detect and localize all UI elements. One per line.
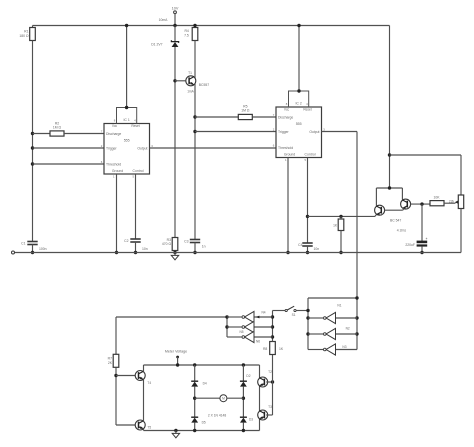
wire pot bottom to rail: [460, 209, 462, 253]
node IC2 vcc rail: [297, 24, 300, 27]
wire right group left bus: [306, 298, 309, 350]
svg-text:100n: 100n: [39, 247, 47, 251]
svg-text:Ground: Ground: [284, 152, 295, 156]
transistor T3: [258, 405, 272, 420]
inverter N6: [227, 331, 273, 343]
svg-text:Ground: Ground: [112, 169, 123, 173]
wire darlington collector bar: [376, 188, 402, 206]
svg-text:1K: 1K: [279, 347, 284, 351]
svg-text:470 Ω: 470 Ω: [162, 242, 172, 246]
svg-text:10V: 10V: [172, 7, 179, 11]
wire inverter left bus: [225, 315, 228, 337]
svg-text:22k: 22k: [449, 199, 455, 203]
wire base bus R8 to T3: [272, 355, 274, 416]
node 10V supply terminal: [172, 7, 179, 26]
svg-text:1M Ω: 1M Ω: [241, 108, 250, 112]
wire control to darlington base: [308, 214, 377, 216]
label diodes type: [208, 414, 226, 418]
potentiometer P1 22k: [458, 195, 463, 209]
wire meter voltage line: [116, 317, 227, 354]
wire left vertical (R1 to C1): [32, 41, 34, 242]
capacitor C5 220uF electrolytic: [405, 204, 427, 252]
transistor T4: [135, 371, 151, 385]
node IC1 vcc rail: [125, 24, 128, 27]
wire label 10mA: [159, 18, 169, 22]
capacitor C4: [298, 243, 319, 253]
svg-text:555: 555: [124, 138, 130, 142]
svg-text:IC 1: IC 1: [123, 118, 129, 122]
svg-text:Trigger: Trigger: [106, 146, 117, 150]
svg-text:10mA: 10mA: [159, 18, 169, 22]
wire T2 base: [266, 381, 272, 383]
svg-text:10n: 10n: [142, 247, 148, 251]
transistor T1 BC557: [175, 71, 209, 93]
diode D5: [191, 417, 206, 424]
diode D4: [191, 381, 207, 386]
node C5-rail: [420, 251, 423, 254]
svg-text:N4: N4: [262, 310, 266, 314]
svg-text:Trigger: Trigger: [278, 130, 289, 134]
transistor T2: [258, 370, 272, 387]
inverter N3: [308, 344, 357, 355]
svg-text:N3: N3: [342, 345, 346, 349]
svg-text:Threshold: Threshold: [106, 162, 121, 166]
wire right group top: [308, 296, 359, 299]
transistor Q1 BC547: [375, 205, 385, 215]
capacitor C2: [124, 239, 148, 253]
svg-text:R8: R8: [263, 347, 267, 351]
svg-text:10n: 10n: [314, 247, 320, 251]
ground under R3: [171, 253, 178, 260]
wire IC2 trigger: [195, 131, 276, 133]
svg-text:C4: C4: [298, 243, 302, 247]
wire left diode chain mid: [194, 387, 196, 418]
svg-text:1mA: 1mA: [187, 90, 194, 94]
resistor R3: [162, 238, 178, 253]
wire bridge box bottom: [144, 430, 260, 432]
wire IC1 threshold: [33, 163, 105, 165]
wire IC1 Vcc drop: [126, 26, 128, 108]
node C1-rail: [31, 251, 34, 254]
wire IC2 ground pin: [287, 158, 289, 253]
wire left diode chain lower: [193, 423, 196, 433]
svg-text:+: +: [426, 237, 428, 241]
svg-text:220uF: 220uF: [405, 243, 415, 247]
wire inverter right bus: [271, 311, 274, 342]
wire Q1 emitter to Q2: [385, 208, 404, 210]
node left terminal: [12, 251, 15, 254]
svg-text:C1: C1: [21, 242, 25, 246]
inverter N4: [227, 310, 273, 322]
node IC1 vcc bracket: [125, 106, 128, 109]
inverter N2: [308, 327, 357, 340]
svg-text:4 2ms: 4 2ms: [397, 229, 407, 233]
wire right group right bus: [355, 316, 358, 335]
svg-text:Control: Control: [133, 169, 144, 173]
ground bottom: [172, 429, 179, 438]
svg-text:T5: T5: [147, 426, 151, 430]
resistor R5: [195, 105, 276, 120]
transistor Q2 BC547: [390, 199, 411, 233]
svg-text:Threshold: Threshold: [278, 146, 293, 150]
node threshold tap: [31, 162, 34, 165]
node meter voltage terminal: [165, 350, 187, 367]
svg-text:T3: T3: [268, 405, 272, 409]
meter M: [195, 395, 244, 402]
node IC2 vcc bracket: [297, 89, 300, 92]
svg-text:Discharge: Discharge: [106, 132, 121, 136]
resistor R7 2K: [108, 354, 119, 367]
svg-text:N2: N2: [346, 327, 350, 331]
resistor R2: [33, 122, 105, 136]
node meter right: [242, 397, 245, 400]
op-amp IC2 555 timer: [273, 91, 326, 162]
svg-text:Output: Output: [309, 130, 319, 134]
svg-text:Vcc: Vcc: [112, 124, 118, 128]
node IC1 gnd-rail: [115, 251, 118, 254]
wire zener to R3: [174, 47, 176, 238]
op-amp IC1 555 timer: [101, 108, 154, 179]
svg-text:Output: Output: [137, 146, 147, 150]
svg-text:Reset: Reset: [131, 124, 139, 128]
svg-text:T2: T2: [268, 370, 272, 374]
node T1 base junction: [173, 79, 176, 82]
node trigger tap: [31, 146, 34, 149]
transistor T5: [135, 420, 151, 430]
svg-text:10K: 10K: [433, 196, 440, 200]
svg-text:D2: D2: [246, 374, 250, 378]
node T4 base junction: [114, 374, 117, 377]
node R5 tap: [193, 115, 196, 118]
svg-text:N1: N1: [337, 303, 341, 307]
wire left diode chain upper: [194, 365, 196, 381]
resistor R4: [184, 26, 198, 41]
svg-text:N5: N5: [240, 330, 244, 334]
wire resistor to pot wiper: [444, 199, 459, 204]
svg-text:IC 2: IC 2: [295, 101, 301, 105]
node R2 tap: [31, 132, 34, 135]
svg-text:555: 555: [296, 122, 302, 126]
wire T1 collector down: [194, 84, 196, 240]
svg-text:S1: S1: [292, 313, 296, 317]
svg-text:1n: 1n: [202, 244, 206, 248]
node meter left: [193, 397, 196, 400]
node IC2 trigger tap: [193, 130, 196, 133]
svg-text:BC 547: BC 547: [390, 219, 401, 223]
svg-text:D5: D5: [202, 420, 206, 424]
node R4 rail: [193, 24, 196, 27]
wire IC1 ground pin: [116, 174, 118, 253]
node D2 top: [242, 363, 245, 366]
svg-text:2 X 1N 4148: 2 X 1N 4148: [208, 414, 226, 418]
wire to potentiometer top: [390, 155, 462, 195]
wire T5 base: [116, 424, 135, 426]
node supply-rail junction: [173, 24, 176, 27]
wire right diode chain mid: [242, 387, 244, 418]
inverter N5: [227, 321, 273, 333]
svg-text:Reset: Reset: [303, 108, 311, 112]
svg-text:1M Ω: 1M Ω: [53, 125, 62, 129]
svg-text:Vcc: Vcc: [284, 108, 290, 112]
wire Q2 emitter out: [411, 203, 430, 205]
svg-text:BC557: BC557: [199, 83, 209, 87]
node darlington collector: [388, 186, 391, 189]
wire bridge box left: [143, 365, 145, 431]
inverter N1: [308, 303, 357, 323]
node C3-rail: [193, 251, 196, 254]
svg-text:D3: D3: [249, 418, 253, 422]
svg-text:N6: N6: [256, 340, 260, 344]
node C2-rail: [134, 251, 137, 254]
node T2 base junction: [271, 380, 274, 383]
wire IC1 control pin: [135, 174, 137, 239]
node emitter-cap junction: [420, 202, 423, 205]
wire T3 base: [266, 414, 272, 416]
capacitor C3: [184, 240, 206, 253]
svg-text:Discharge: Discharge: [278, 115, 293, 119]
wire IC2 output: [322, 132, 358, 350]
node pot branch: [388, 153, 391, 156]
wire right diode chain upper: [242, 365, 244, 381]
wire IC2 control pin: [307, 158, 309, 244]
node R9-rail: [339, 251, 342, 254]
wire bridge box right: [259, 365, 261, 431]
capacitor C1: [21, 242, 47, 253]
wire R4 to T1: [194, 41, 196, 79]
wire bridge box top: [144, 364, 260, 366]
node R3-rail: [173, 251, 176, 254]
svg-text:7.5: 7.5: [184, 33, 189, 37]
svg-text:M: M: [222, 397, 225, 401]
svg-text:C3: C3: [184, 240, 188, 244]
wire bottom rail: [14, 252, 461, 254]
svg-text:D4: D4: [203, 381, 207, 385]
node IC2 gnd-rail: [286, 251, 289, 254]
resistor R1: [19, 26, 35, 41]
node control branch: [306, 215, 309, 218]
wire IC1 output to IC2 threshold: [150, 147, 277, 149]
svg-text:D1 2V7: D1 2V7: [151, 43, 162, 47]
svg-text:T4: T4: [147, 381, 151, 385]
resistor R8 1K: [263, 342, 284, 355]
svg-text:2K: 2K: [108, 361, 113, 365]
wire IC2 Vcc drop: [298, 26, 300, 92]
svg-text:C2: C2: [124, 239, 128, 243]
resistor R10 10K: [430, 196, 444, 206]
node D4 top: [193, 363, 196, 366]
svg-text:Meter Voltage: Meter Voltage: [165, 350, 187, 354]
switch S1: [273, 306, 309, 317]
resistor R9 1K bias: [333, 215, 344, 253]
svg-text:T1: T1: [188, 71, 192, 75]
wire IC1 trigger: [33, 147, 105, 149]
node C4-rail: [306, 251, 309, 254]
wire right diode chain lower: [242, 423, 245, 433]
wire T4 base: [116, 375, 135, 377]
diode D2: [240, 374, 251, 386]
diode D1 zener 2V7: [151, 26, 178, 48]
wire top supply rail: [33, 25, 390, 27]
diode D3: [240, 417, 253, 422]
wire R7 to T4/T5 bases: [115, 367, 117, 425]
svg-text:Control: Control: [305, 152, 316, 156]
wire top rail right drop: [389, 26, 391, 189]
svg-text:180 Ω: 180 Ω: [19, 34, 29, 38]
